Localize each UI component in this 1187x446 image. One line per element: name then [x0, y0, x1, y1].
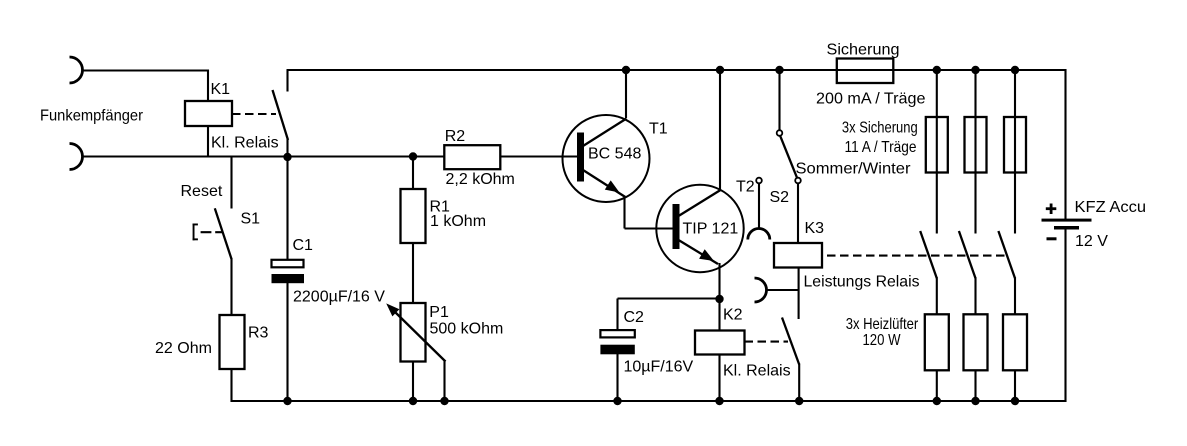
svg-text:K3: K3 — [805, 220, 825, 237]
svg-text:500 kOhm: 500 kOhm — [430, 321, 504, 338]
svg-text:Kl. Relais: Kl. Relais — [211, 134, 279, 151]
svg-text:Funkempfänger: Funkempfänger — [40, 108, 144, 125]
svg-text:K1: K1 — [211, 81, 231, 98]
svg-text:S2: S2 — [770, 189, 790, 206]
svg-text:200 mA / Träge: 200 mA / Träge — [816, 91, 926, 108]
svg-text:11 A / Träge: 11 A / Träge — [845, 139, 917, 156]
svg-text:TIP 121: TIP 121 — [683, 221, 739, 238]
svg-text:KFZ Accu: KFZ Accu — [1075, 199, 1147, 216]
svg-text:C2: C2 — [624, 309, 645, 326]
svg-text:22 Ohm: 22 Ohm — [155, 340, 212, 357]
svg-text:2,2 kOhm: 2,2 kOhm — [446, 171, 515, 188]
svg-text:Kl. Relais: Kl. Relais — [723, 362, 791, 379]
svg-text:C1: C1 — [293, 237, 314, 254]
svg-text:3x Sicherung: 3x Sicherung — [842, 119, 918, 136]
svg-text:Sicherung: Sicherung — [827, 42, 900, 59]
svg-text:1 kOhm: 1 kOhm — [430, 213, 486, 230]
svg-text:120 W: 120 W — [863, 332, 902, 349]
svg-text:BC 548: BC 548 — [588, 146, 641, 163]
svg-text:Leistungs Relais: Leistungs Relais — [804, 274, 920, 291]
svg-text:T1: T1 — [649, 121, 668, 138]
svg-text:P1: P1 — [429, 304, 449, 321]
svg-text:T2: T2 — [736, 179, 755, 196]
svg-text:S1: S1 — [241, 211, 261, 228]
svg-text:12 V: 12 V — [1075, 233, 1108, 250]
svg-text:10µF/16V: 10µF/16V — [624, 359, 694, 376]
svg-text:2200µF/16 V: 2200µF/16 V — [293, 289, 385, 306]
svg-text:K2: K2 — [723, 307, 743, 324]
svg-text:R3: R3 — [248, 325, 269, 342]
svg-text:Reset: Reset — [181, 183, 223, 200]
svg-text:3x Heizlüfter: 3x Heizlüfter — [846, 316, 919, 333]
svg-text:Sommer/Winter: Sommer/Winter — [796, 161, 912, 178]
svg-text:R2: R2 — [445, 128, 466, 145]
